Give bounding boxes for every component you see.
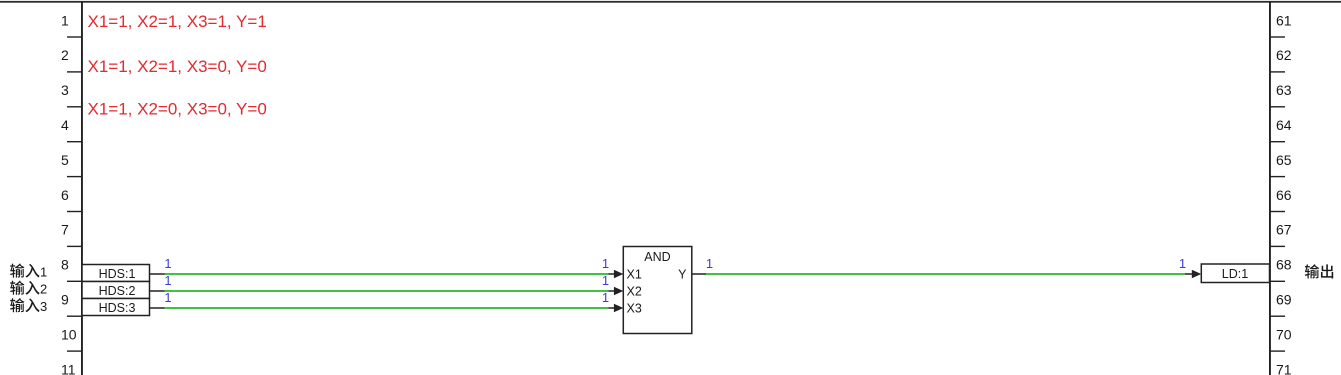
svg-text:LD:1: LD:1 [1222, 267, 1248, 281]
svg-text:1: 1 [1179, 256, 1186, 271]
net state labels "1" at wire sources [164, 256, 171, 305]
svg-text:10: 10 [61, 326, 77, 342]
svg-text:X1: X1 [627, 268, 642, 282]
green wire net 4 (Y to LD:1) [706, 273, 1185, 275]
svg-text:9: 9 [61, 292, 69, 308]
svg-text:61: 61 [1276, 12, 1292, 28]
right power rail [1269, 1, 1271, 375]
svg-text:3: 3 [61, 82, 69, 98]
svg-text:1: 1 [61, 12, 69, 28]
svg-text:63: 63 [1276, 82, 1292, 98]
svg-text:65: 65 [1276, 152, 1292, 168]
svg-text:70: 70 [1276, 326, 1292, 342]
right rail row numbers 61-71 [1276, 12, 1292, 375]
input label 输入3 [10, 298, 47, 314]
svg-text:62: 62 [1276, 47, 1292, 63]
svg-text:2: 2 [40, 282, 47, 297]
svg-text:6: 6 [61, 187, 69, 203]
svg-text:X3: X3 [627, 302, 642, 316]
stub wire from HDS:3 [150, 307, 165, 309]
svg-text:1: 1 [164, 290, 171, 305]
AND block U1 [623, 247, 692, 334]
svg-text:X1=1, X2=1, X3=0, Y=0: X1=1, X2=1, X3=0, Y=0 [88, 57, 267, 76]
svg-text:64: 64 [1276, 117, 1292, 133]
svg-text:X1=1, X2=0, X3=0, Y=0: X1=1, X2=0, X3=0, Y=0 [88, 100, 267, 119]
net state labels "1" at AND inputs [602, 256, 609, 305]
AND input stub + arrowhead X3 [609, 304, 624, 313]
svg-text:5: 5 [61, 152, 69, 168]
svg-text:1: 1 [40, 264, 47, 279]
svg-text:HDS:2: HDS:2 [99, 284, 136, 298]
stub wire from HDS:1 [150, 273, 165, 275]
svg-text:Y: Y [678, 268, 687, 282]
output label 输出 [1305, 264, 1333, 278]
svg-text:HDS:1: HDS:1 [99, 267, 136, 281]
svg-text:1: 1 [164, 256, 171, 271]
green wire net 2 (HDS:2 to X2) [165, 290, 609, 292]
input block HDS:2 [82, 282, 150, 299]
svg-text:68: 68 [1276, 257, 1292, 273]
svg-text:1: 1 [164, 273, 171, 288]
stub wire from HDS:2 [150, 290, 165, 292]
input block HDS:1 [82, 265, 150, 282]
svg-text:HDS:3: HDS:3 [99, 301, 136, 315]
svg-text:X2: X2 [627, 285, 642, 299]
input label 输入1 [10, 263, 47, 279]
svg-text:11: 11 [61, 361, 76, 375]
svg-text:67: 67 [1276, 222, 1292, 238]
svg-text:7: 7 [61, 222, 69, 238]
input label 输入2 [10, 281, 47, 297]
green wire net 1 (HDS:1 to X1) [165, 273, 609, 275]
svg-text:X1=1, X2=1, X3=1, Y=1: X1=1, X2=1, X3=1, Y=1 [88, 12, 267, 31]
left rail ticks [67, 37, 82, 351]
svg-text:1: 1 [602, 290, 609, 305]
AND input stub + arrowhead X1 [609, 270, 624, 279]
svg-text:8: 8 [61, 257, 69, 273]
top border line [0, 1, 1341, 3]
output block LD:1 [1201, 264, 1269, 283]
svg-text:71: 71 [1276, 361, 1292, 375]
AND output stub [692, 273, 706, 275]
svg-text:AND: AND [644, 250, 670, 264]
svg-text:69: 69 [1276, 292, 1292, 308]
input block HDS:3 [82, 299, 150, 316]
left rail row numbers 1-11 [61, 12, 77, 375]
svg-text:1: 1 [602, 273, 609, 288]
svg-text:1: 1 [706, 256, 713, 271]
svg-text:1: 1 [602, 256, 609, 271]
svg-text:3: 3 [40, 299, 47, 314]
green wire net 3 (HDS:3 to X3) [165, 307, 609, 309]
svg-text:66: 66 [1276, 187, 1292, 203]
LD input stub + arrowhead [1185, 270, 1201, 279]
right rail ticks [1271, 37, 1286, 351]
left power rail [81, 1, 83, 375]
svg-text:4: 4 [61, 117, 69, 133]
AND input stub + arrowhead X2 [609, 287, 624, 296]
svg-text:2: 2 [61, 47, 69, 63]
